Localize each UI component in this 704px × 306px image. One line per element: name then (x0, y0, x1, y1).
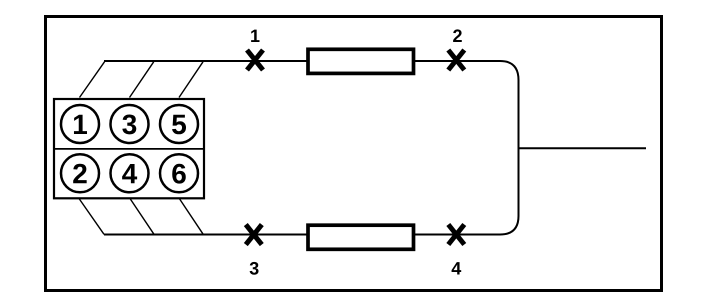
exhaust runner diagonal top 2 (130, 62, 154, 98)
tailpipe line (519, 147, 647, 149)
sensor X mark 4 (448, 225, 464, 245)
engine block outline (54, 99, 204, 198)
sensor X mark 1 (247, 50, 263, 70)
exhaust runner diagonal top 3 (179, 62, 203, 98)
outer border frame (46, 17, 662, 291)
exhaust runner diagonal bottom 2 (130, 199, 154, 235)
cylinder 3 number (122, 114, 136, 134)
sensor X mark 3 (246, 225, 262, 245)
exhaust runner diagonal bottom 1 (79, 199, 104, 235)
cylinder 1 circle (61, 105, 99, 143)
sensor label 4 (452, 262, 462, 274)
engine block bank divider line (53, 148, 205, 150)
exhaust runner diagonal top 1 (80, 62, 105, 98)
catalytic converter top rectangle (308, 49, 414, 73)
exhaust runner diagonal bottom 3 (179, 199, 203, 235)
sensor label 2 (453, 29, 462, 42)
cylinder 3 circle (111, 105, 149, 143)
cylinder 4 circle (111, 154, 149, 192)
sensor label 3 (250, 262, 259, 275)
cylinder 4 number (122, 164, 137, 183)
cylinder 1 number (74, 115, 87, 134)
cylinder 5 circle (160, 105, 198, 143)
exhaust pipe loop (top pipe, right curve, vertical join, bottom pipe) (104, 61, 519, 235)
cylinder 2 number (73, 164, 86, 184)
sensor X mark 2 (448, 50, 464, 70)
cylinder 6 number (172, 164, 186, 184)
cylinder 6 circle (160, 154, 198, 192)
sensor label 1 (251, 30, 259, 42)
cylinder 5 number (172, 115, 186, 135)
catalytic converter bottom rectangle (308, 225, 414, 249)
cylinder 2 circle (61, 154, 99, 192)
